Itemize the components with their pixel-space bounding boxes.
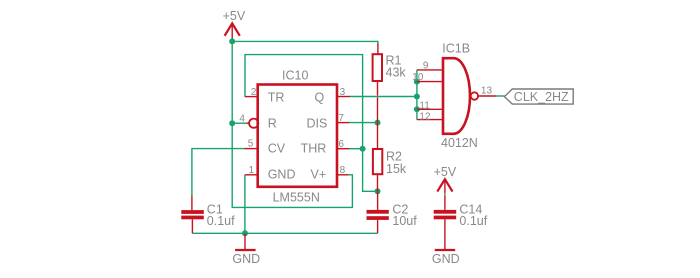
capacitor C2 10uf <box>367 191 418 233</box>
capacitor C14 0.1uf <box>434 202 488 250</box>
node junction NAND pin11 <box>414 106 420 112</box>
svg-text:+5V: +5V <box>223 9 246 23</box>
ground symbol GND (C14 branch) <box>432 250 460 266</box>
svg-text:2: 2 <box>251 87 257 98</box>
svg-text:43k: 43k <box>386 65 407 79</box>
svg-text:DIS: DIS <box>307 117 328 131</box>
svg-text:IC1B: IC1B <box>442 42 470 56</box>
svg-text:Q: Q <box>315 91 325 105</box>
svg-text:CV: CV <box>268 141 286 155</box>
svg-text:R: R <box>268 117 277 131</box>
svg-text:+5V: +5V <box>434 165 457 179</box>
IC1B pin 12 <box>417 111 443 122</box>
svg-text:4: 4 <box>239 113 245 124</box>
IC1B pin 9 <box>417 61 443 72</box>
wire +5V down to V+ (pin 8) <box>232 41 352 207</box>
svg-text:4012N: 4012N <box>441 136 478 150</box>
svg-text:V+: V+ <box>311 167 327 181</box>
svg-text:12: 12 <box>419 111 431 122</box>
node junction NAND pin10 <box>414 79 420 85</box>
IC1B pin 10 <box>412 72 443 83</box>
IC10 pin 8 V+ <box>311 165 349 181</box>
wire DIS(7) to R1/R2 junction <box>349 122 378 124</box>
node junction bottom rail GND <box>242 230 248 236</box>
IC10 pin 1 GND <box>245 165 296 181</box>
IC1B pin 13 output <box>478 85 497 96</box>
wire bottom ground rail <box>192 232 377 234</box>
svg-text:0.1uf: 0.1uf <box>207 214 235 228</box>
capacitor C1 0.1uf <box>181 196 235 234</box>
nand gate IC1B 4012N body <box>441 42 478 150</box>
resistor R2 15k <box>373 123 407 192</box>
svg-text:1: 1 <box>248 165 254 176</box>
svg-text:GND: GND <box>268 167 296 181</box>
node junction +5V rail top <box>229 38 235 44</box>
svg-text:5: 5 <box>248 138 254 149</box>
svg-text:THR: THR <box>301 141 327 155</box>
wire GND pin 1 down <box>244 175 246 234</box>
wire THR(6) to vertical <box>349 148 363 150</box>
IC10 pin 6 THR <box>301 139 349 155</box>
svg-text:10uf: 10uf <box>392 214 417 228</box>
op-amp IC10 LM555N body <box>258 68 337 204</box>
wire Q(3) to NAND inputs <box>350 96 417 98</box>
node label CLK_2HZ flag <box>504 89 573 104</box>
svg-text:11: 11 <box>419 100 430 111</box>
svg-text:7: 7 <box>338 113 344 124</box>
ground symbol GND (left) <box>232 233 260 266</box>
IC10 pin 3 Q <box>315 87 351 105</box>
svg-text:CLK_2HZ: CLK_2HZ <box>514 90 569 104</box>
node junction NAND bus mid <box>414 94 420 100</box>
power +5V supply symbol (left) <box>223 9 246 42</box>
IC10 pin 4 R with bubble <box>239 113 276 130</box>
node junction THR tap <box>360 146 366 152</box>
svg-text:3: 3 <box>340 87 346 98</box>
power +5V supply symbol (C14 branch) <box>434 165 457 210</box>
svg-text:LM555N: LM555N <box>273 191 320 205</box>
IC10 pin 5 CV <box>245 138 286 155</box>
svg-text:0.1uf: 0.1uf <box>459 214 487 228</box>
wire NAND input bus vertical <box>416 70 418 120</box>
svg-text:GND: GND <box>432 252 460 266</box>
svg-text:TR: TR <box>268 91 285 105</box>
svg-text:GND: GND <box>232 252 260 266</box>
svg-text:13: 13 <box>481 85 493 96</box>
IC1B pin 11 <box>417 100 443 111</box>
svg-text:15k: 15k <box>386 162 407 176</box>
svg-text:9: 9 <box>423 61 429 72</box>
svg-text:8: 8 <box>340 165 346 176</box>
svg-text:10: 10 <box>412 72 424 83</box>
svg-text:6: 6 <box>338 139 344 150</box>
IC10 pin 7 DIS <box>307 113 350 131</box>
wire CV(5) to C1 <box>192 149 245 196</box>
wire TR(2) to THR(6) and R2 bottom <box>245 55 378 192</box>
svg-text:IC10: IC10 <box>282 68 308 82</box>
wire reset pin 4 tap <box>232 122 246 124</box>
resistor R1 43k <box>373 53 407 122</box>
node junction R1 bottom / R2 top / DIS <box>375 120 381 126</box>
wire +5V rail to R1 top <box>232 41 378 54</box>
node junction R2 bottom / C2 top <box>375 188 381 194</box>
node junction at pin 4 tap <box>229 120 235 126</box>
IC10 pin 2 TR <box>245 87 284 105</box>
wire output to label <box>497 95 505 97</box>
